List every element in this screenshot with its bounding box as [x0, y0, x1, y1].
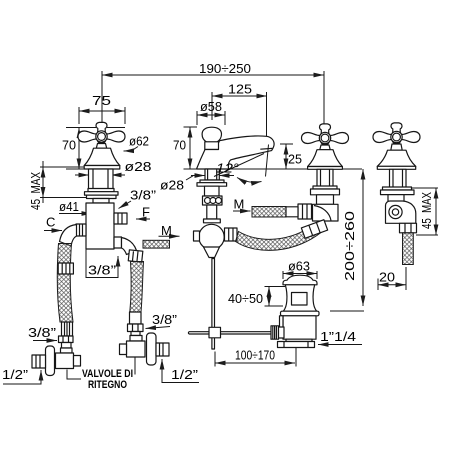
svg-text:1/2”: 1/2”: [2, 367, 28, 382]
dimension diameter 58 spout cap: [197, 99, 225, 125]
left tap outlet M nipple: [114, 237, 122, 248]
right check valve body: [120, 341, 146, 357]
svg-text:ø28: ø28: [160, 178, 184, 193]
spout outlet aerator: [260, 147, 272, 150]
spout collar: [205, 142, 219, 150]
right valve top port: [131, 332, 140, 336]
node M mixed right: [233, 197, 251, 212]
right valve 1/2 inch stub: [156, 343, 169, 356]
dimension 125 spout reach: [212, 82, 267, 137]
svg-text:3/8”: 3/8”: [130, 188, 156, 203]
svg-text:M: M: [234, 197, 245, 212]
svg-text:45 MAX: 45 MAX: [28, 172, 43, 210]
right valve wall flange: [147, 333, 157, 365]
drain flange: [281, 311, 320, 316]
svg-text:RITEGNO: RITEGNO: [88, 379, 127, 391]
left tap handle: [78, 122, 125, 142]
right tap flange: [381, 187, 415, 195]
dimension 70 left tap height: [62, 128, 125, 170]
deck reference line: [197, 168, 363, 170]
dimension 100-170 rod to drain: [215, 347, 296, 367]
dimension diameter 41 tap body: [59, 199, 92, 214]
dimension 45 MAX left: [28, 161, 88, 210]
dimension 40-50 drain body: [228, 287, 285, 307]
svg-text:200÷260: 200÷260: [342, 211, 357, 281]
pop-up vertical rod: [212, 259, 215, 350]
label check valves: [67, 355, 135, 391]
mid-right tap bell: [308, 150, 343, 167]
svg-text:3/8”: 3/8”: [88, 263, 116, 278]
svg-text:70: 70: [173, 138, 186, 153]
mid-right tap stem: [317, 169, 333, 186]
spout ball right nut: [225, 228, 238, 241]
braided hose F to right valve: [130, 262, 144, 313]
svg-text:70: 70: [62, 138, 76, 153]
dimension 3/8 inch right valve: [146, 312, 178, 329]
dimension diameter 28 spout stem: [160, 176, 234, 193]
node C hot inlet: [44, 215, 62, 231]
right tap handle side view: [373, 123, 420, 143]
right tap bell: [377, 150, 415, 166]
svg-text:3/8”: 3/8”: [152, 312, 177, 327]
svg-text:1/2”: 1/2”: [171, 367, 198, 382]
left tap inlet C nipple: [76, 224, 86, 236]
dimension 12 degree spout angle: [214, 145, 269, 183]
drain pop-up cap: [283, 275, 317, 285]
dimension 70 spout height: [173, 127, 197, 169]
dimension 20 hose offset: [378, 267, 406, 290]
dimension diameter 63 drain plug: [283, 259, 317, 280]
dimension 1 1/4 inch tailpiece leader: [318, 329, 362, 345]
pop-up horizontal rod: [188, 332, 271, 334]
spout body and arm: [197, 136, 275, 169]
drain funnel body: [283, 285, 316, 311]
right valve nut: [128, 324, 144, 332]
svg-text:ø28: ø28: [125, 159, 152, 174]
right tap stem: [390, 169, 407, 187]
spout lower collar: [205, 186, 220, 196]
svg-text:1”1/4: 1”1/4: [320, 329, 356, 344]
dimension 1/2 inch left: [2, 367, 41, 384]
drain window: [292, 293, 308, 306]
dimension 3/8 inch boxed leader: [86, 250, 118, 278]
hose coupling nut left: [58, 263, 73, 274]
svg-text:ø58: ø58: [200, 99, 222, 114]
rod clamp: [209, 327, 221, 338]
right tap body side view: [386, 201, 416, 223]
left valve wall flange: [46, 346, 55, 376]
right tap neck below deck: [388, 195, 404, 202]
dimension 3/8 inch upper leader: [119, 188, 157, 209]
right valve ferrule: [130, 312, 142, 324]
spout cap knob: [202, 127, 221, 142]
svg-text:ø62: ø62: [129, 134, 149, 149]
braided hose stub M left: [143, 240, 170, 248]
drain body: [283, 316, 316, 339]
svg-text:100÷170: 100÷170: [235, 348, 275, 363]
braided hose C to left valve: [57, 244, 73, 323]
spout ball body: [199, 224, 224, 249]
svg-text:40÷50: 40÷50: [228, 291, 263, 306]
drain knurled nut: [271, 326, 284, 339]
svg-text:25: 25: [288, 152, 302, 167]
braided hose stub M right: [252, 207, 298, 218]
left tap bell: [84, 148, 120, 165]
mid-right tap outlet nut tilted: [301, 220, 327, 239]
right tap hose nut: [400, 223, 417, 233]
left valve top port: [62, 343, 72, 349]
spout ball left stub: [194, 231, 200, 241]
svg-text:75: 75: [92, 93, 111, 108]
left tap flange: [85, 189, 119, 204]
hose nut on right drop: [128, 250, 143, 262]
mid-right tap body: [317, 195, 334, 205]
svg-text:190÷250: 190÷250: [199, 61, 251, 76]
dimension 75 handle width: [79, 93, 125, 124]
braided hose tap to spout ball: [236, 225, 322, 251]
dimension 1/2 inch right: [162, 359, 199, 383]
mid-right tap flange: [311, 186, 340, 195]
left tap body: [86, 203, 114, 249]
svg-text:125: 125: [228, 82, 252, 97]
dimension 200-260 hose drop: [330, 169, 364, 311]
drain overflow tab: [280, 316, 284, 331]
spout flange: [197, 180, 227, 186]
dimension 25 spout outlet height: [280, 144, 302, 169]
dimension diameter 28 left tap stem: [75, 159, 152, 175]
svg-text:20: 20: [379, 270, 395, 285]
hose elbow to right valve: [122, 238, 137, 255]
svg-text:ø63: ø63: [288, 259, 310, 274]
right tap braided hose: [403, 233, 414, 265]
left valve 1/2 inch stub: [32, 355, 46, 368]
mid-right tap neck: [320, 145, 330, 150]
left valve ferrule: [62, 322, 73, 336]
spout coupling nut with balls: [203, 196, 223, 205]
left check valve body: [56, 353, 81, 369]
left tap neck: [96, 144, 106, 149]
right tap neck: [391, 144, 402, 150]
svg-text:12°: 12°: [216, 161, 239, 176]
dimension 45 MAX right: [412, 188, 438, 235]
hose elbow left: [60, 225, 77, 247]
left tap inlet F nipple: [114, 213, 127, 224]
svg-text:C: C: [46, 215, 55, 230]
svg-text:3/8”: 3/8”: [28, 325, 56, 340]
svg-text:ø41: ø41: [59, 199, 79, 214]
spout ring: [204, 219, 221, 223]
svg-text:45 MAX: 45 MAX: [419, 192, 434, 229]
left tap stem: [89, 169, 114, 189]
node M mixed left: [159, 223, 180, 238]
svg-text:F: F: [142, 205, 150, 220]
spout ball cone: [204, 247, 220, 258]
mid-right tap handle: [302, 124, 349, 144]
spout pipe: [207, 205, 217, 219]
dimension 190-250 overall width: [102, 61, 324, 127]
dimension diameter 62 handle bell: [124, 134, 150, 152]
svg-text:M: M: [161, 223, 172, 238]
left valve nut: [59, 336, 74, 343]
drain tailpiece: [278, 339, 315, 347]
node F cold inlet: [136, 205, 150, 220]
spout stem: [205, 169, 219, 180]
dimension 3/8 inch left valve: [28, 325, 57, 341]
mid-right tap inlet nut: [298, 204, 312, 219]
